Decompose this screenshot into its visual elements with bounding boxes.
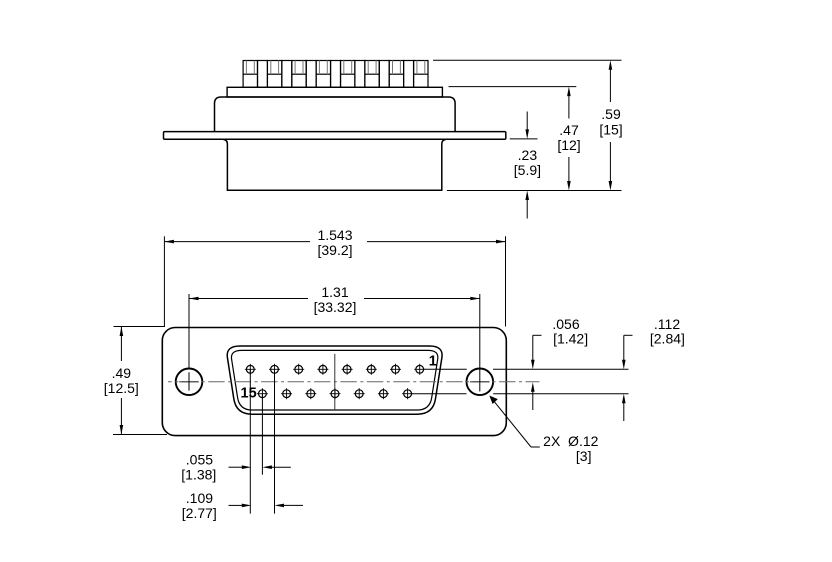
extension line from pin 8 down <box>249 369 251 513</box>
dimension .109 [2.77] <box>182 490 303 521</box>
dimension .59 [15] <box>599 60 622 190</box>
extension line: bottom pin row right <box>412 393 466 395</box>
svg-text:.49: .49 <box>112 365 132 381</box>
svg-text:.23: .23 <box>518 147 538 163</box>
front view: D-shell inner outline <box>231 350 437 410</box>
svg-text:[39.2]: [39.2] <box>317 242 352 258</box>
leader and note 2X Ø.12 [3] <box>489 396 598 465</box>
front view: top row pins 1-8 <box>245 364 425 375</box>
mounting hole right <box>467 369 494 396</box>
dimension .055 [1.38] <box>181 452 291 483</box>
svg-text:[12]: [12] <box>557 137 580 153</box>
svg-text:[1.42]: [1.42] <box>553 330 588 346</box>
svg-text:[12.5]: [12.5] <box>104 380 139 396</box>
extension line from pin 15 down <box>261 394 263 475</box>
svg-text:[2.77]: [2.77] <box>182 505 217 521</box>
svg-text:1.543: 1.543 <box>317 227 352 243</box>
extension line from pin 7 down <box>274 369 276 513</box>
extension line: insulator top <box>449 86 577 88</box>
top view: mounting flange <box>164 132 506 140</box>
dimension .056 [1.42] <box>531 316 588 410</box>
top view: insulator block <box>227 87 442 97</box>
svg-text:1.31: 1.31 <box>321 284 348 300</box>
top view: connector pins (side profile) <box>243 61 428 88</box>
svg-text:1: 1 <box>429 354 437 370</box>
extension line: top pin row right <box>424 368 467 370</box>
svg-text:.59: .59 <box>601 106 621 122</box>
svg-text:[5.9]: [5.9] <box>514 162 541 178</box>
hole cross arms <box>179 381 199 383</box>
front view: bottom row pins 9-15 <box>257 388 413 399</box>
svg-text:[2.84]: [2.84] <box>650 330 685 346</box>
extension line: flange bottom <box>510 138 538 140</box>
top view: rear body <box>223 140 445 191</box>
mounting hole left <box>176 369 203 396</box>
svg-text:.055: .055 <box>186 452 213 468</box>
svg-text:.109: .109 <box>186 490 213 506</box>
svg-text:.47: .47 <box>559 122 579 138</box>
dimension .23 [5.9] <box>514 112 541 219</box>
front view: mounting flange face <box>162 328 506 436</box>
top view: metal shell <box>215 97 456 132</box>
extension line: pin top <box>433 59 622 61</box>
svg-text:[33.32]: [33.32] <box>314 299 357 315</box>
dimension .49 [12.5] flange height <box>104 327 167 435</box>
svg-text:15: 15 <box>241 386 257 402</box>
dimension 1.543 [39.2] overall width <box>164 227 505 327</box>
svg-text:[1.38]: [1.38] <box>181 466 216 482</box>
svg-text:[3]: [3] <box>576 448 592 464</box>
dimension 1.31 [33.32] hole spacing <box>189 284 480 391</box>
dimension .47 [12] <box>557 87 580 191</box>
svg-text:[15]: [15] <box>599 122 622 138</box>
extension line: body bottom <box>447 190 622 192</box>
vertical centerline of D <box>334 354 336 410</box>
dimension .112 [2.84] <box>622 316 685 421</box>
svg-text:2X Ø.12: 2X Ø.12 <box>543 433 598 449</box>
horizontal centerline <box>168 381 540 383</box>
front view: D-shell outer outline <box>227 346 442 414</box>
